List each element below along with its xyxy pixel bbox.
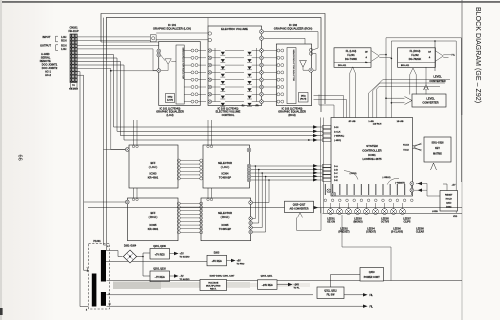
svg-text:CONVERTER: CONVERTER: [429, 79, 445, 83]
node C-POWER area: [327, 189, 331, 193]
svg-text:(S-CLASS): (S-CLASS): [391, 230, 403, 233]
FL202 heater link via LC1: [425, 68, 427, 85]
svg-text:SERIAL: SERIAL: [41, 56, 51, 60]
svg-text:Q313: Q313: [446, 203, 452, 205]
wire OUTPUT LCH: [77, 49, 157, 71]
system controller IC301 box: [331, 118, 413, 197]
VDD rail: [323, 212, 463, 214]
svg-text:+5V REG: +5V REG: [212, 260, 222, 263]
svg-text:(PRESET): (PRESET): [338, 230, 349, 233]
enclosure border inner: [106, 18, 321, 112]
A-D converter block Q315-Q317: [285, 201, 314, 212]
selector1 output nodes: [247, 164, 251, 168]
svg-text:D-A: D-A: [334, 165, 338, 168]
svg-text:Q202, Q210: Q202, Q210: [153, 269, 166, 271]
svg-text:1Ø: 1Ø: [365, 51, 368, 53]
attenuator cell R: [247, 88, 251, 91]
wire power cont to fil sw: [331, 275, 361, 288]
svg-text:KC1B: KC1B: [403, 144, 409, 146]
scan gray smear above power section: [113, 282, 250, 288]
svg-text:DG-T430K: DG-T430K: [345, 58, 357, 61]
svg-text:LEVEL: LEVEL: [426, 97, 435, 101]
svg-text:SELECTOR: SELECTOR: [218, 211, 232, 215]
scan bottom-left dark mark: [0, 308, 3, 315]
fil switch block Q311 Q312: [317, 287, 344, 299]
svg-text:( LCH ): ( LCH ): [221, 165, 230, 169]
svg-text:FL202: FL202: [411, 54, 419, 57]
IC102 box: [276, 44, 311, 106]
buffer BFF LCH IC303: [129, 145, 178, 188]
svg-text:MULTIPLYING: MULTIPLYING: [206, 285, 221, 287]
svg-text:P1301: P1301: [93, 240, 101, 243]
svg-text:11Ø RCH: 11Ø RCH: [373, 124, 382, 126]
svg-text:TO PRO: TO PRO: [237, 264, 245, 266]
wire junction at x111: [110, 70, 112, 72]
svg-text:(~SERIAL): (~SERIAL): [334, 135, 345, 138]
FL202 grid chevron: [436, 51, 444, 61]
svg-text:INPUT: INPUT: [42, 35, 50, 39]
arrow FIL 1: [363, 293, 368, 296]
svg-text:D-D: D-D: [334, 177, 338, 179]
svg-text:FIL: FIL: [370, 306, 374, 308]
svg-text:D-B: D-B: [334, 170, 338, 172]
wires from equalizer section down to BFF row1: [133, 120, 135, 145]
svg-text:IC303: IC303: [150, 172, 157, 176]
svg-text:VDD: VDD: [453, 216, 458, 218]
svg-text:SEMICONDUCTOR INDUCTOR: SEMICONDUCTOR INDUCTOR: [181, 48, 183, 80]
LED lamp: [337, 209, 343, 215]
attenuator cell R: [247, 96, 251, 99]
LED lamp: [391, 209, 397, 215]
controller key input pin boxes: [323, 164, 332, 167]
attenuator cell L: [221, 66, 225, 69]
node bus into BFF2: [125, 200, 129, 204]
controller serial pin boxes: [323, 125, 332, 128]
svg-text:S301~S326: S301~S326: [431, 143, 444, 145]
attenuator cell R: [247, 66, 251, 69]
svg-text:D203: D203: [214, 253, 220, 255]
svg-text:TC405·BP: TC405·BP: [219, 176, 232, 180]
LED lamp: [382, 209, 388, 215]
svg-text:Ø7~ØB: Ø7~ØB: [349, 121, 356, 123]
wire pin square to electric volume: [156, 32, 208, 34]
svg-text:SEMICONDUCTOR INDUCTOR: SEMICONDUCTOR INDUCTOR: [292, 50, 294, 82]
attenuator cell L: [221, 74, 225, 77]
wire selector2 fan: [252, 166, 255, 219]
svg-text:–24V: –24V: [294, 284, 300, 287]
svg-text:DCO JOINT1: DCO JOINT1: [42, 63, 58, 67]
svg-text:BFF: BFF: [150, 161, 155, 165]
attenuator cell L: [221, 52, 225, 55]
level converter 2 box: [412, 94, 446, 107]
svg-text:+5V: +5V: [237, 261, 242, 263]
svg-text:+7V: +7V: [180, 254, 185, 256]
fuse hook on primary lead: [87, 267, 88, 270]
svg-text:FL201: FL201: [347, 54, 355, 57]
selector LCH IC304: [203, 145, 250, 188]
svg-text:1Ø: 1Ø: [428, 51, 431, 53]
svg-text:DG-762GK: DG-762GK: [409, 58, 422, 61]
svg-text:TO AUDIO: TO AUDIO: [180, 278, 190, 281]
svg-text:(MONO): (MONO): [353, 221, 362, 224]
svg-text:KB-2619: KB-2619: [69, 89, 79, 91]
wire EV to IC102 top links: [264, 32, 318, 50]
svg-text:1~ØB: 1~ØB: [368, 121, 374, 123]
svg-text:(R): (R): [255, 105, 258, 107]
wire key scan lines: [251, 165, 323, 167]
LED driver pin circles: [324, 199, 327, 202]
svg-text:TC405·BP: TC405·BP: [219, 227, 232, 231]
svg-text:KR-4091: KR-4091: [148, 227, 159, 231]
svg-text:A/D CONVERTER: A/D CONVERTER: [289, 208, 308, 211]
svg-text:D-CLK: D-CLK: [334, 131, 341, 133]
AD converter up arrow: [298, 213, 303, 218]
rail power second: [107, 294, 314, 296]
controller bottom pin labels: [325, 184, 326, 195]
transformer tap wires: [106, 251, 123, 257]
svg-text:TO: TO: [72, 85, 75, 87]
FL202 drive arrow: [410, 68, 413, 95]
svg-text:(~RELD): (~RELD): [383, 177, 391, 179]
svg-text:A-GND: A-GND: [41, 52, 50, 56]
IC103 left pin circles: [208, 32, 211, 35]
svg-text:FIL SW: FIL SW: [327, 295, 336, 297]
svg-text:D304: D304: [446, 206, 452, 209]
attenuator cell R: [247, 52, 251, 55]
svg-text:(~NRC): (~NRC): [334, 140, 341, 142]
FL201 drive arrow pair: [350, 67, 353, 118]
IC103 right nodes: [259, 30, 263, 34]
svg-text:D-E: D-E: [334, 180, 338, 182]
scan left edge shading: [0, 0, 2, 320]
svg-text:RECT.: RECT.: [210, 288, 217, 290]
buffer BFF RCH IC305: [128, 198, 179, 241]
svg-text:CONTROLLER: CONTROLLER: [362, 148, 381, 152]
svg-text:Q201, Q209: Q201, Q209: [153, 246, 166, 248]
key matrix bottom arrow: [431, 163, 437, 170]
wire reset: [416, 184, 440, 197]
LC2 input chevron: [405, 97, 413, 105]
svg-text:OUTPUT: OUTPUT: [40, 44, 51, 48]
DEQ RCH sub box: [299, 93, 309, 103]
attenuator cell L: [221, 103, 225, 106]
arrow FIL 2: [363, 305, 368, 308]
IC103 electric volume box: [208, 26, 262, 106]
svg-text:CLIPS: CLIPS: [403, 221, 410, 224]
svg-text:SYSTEM: SYSTEM: [366, 144, 378, 148]
svg-text:LEVEL: LEVEL: [433, 75, 442, 79]
wires from row1 down to row2: [133, 188, 135, 198]
svg-text:( RCH ): ( RCH ): [149, 215, 158, 219]
svg-text:1Ø~ØB: 1Ø~ØB: [397, 121, 404, 123]
connector lower tail note TO KB-2619: [71, 83, 78, 88]
svg-text:BFF: BFF: [150, 211, 155, 215]
arrow -7V: [170, 275, 175, 277]
svg-text:IC304: IC304: [222, 172, 229, 176]
op-amp triangle IC101: [165, 59, 171, 64]
wire INPUT RCH to IC101: [77, 39, 150, 41]
svg-text:KC12: KC12: [403, 150, 409, 152]
LED lamp: [373, 209, 379, 215]
svg-text:Q315~Q317: Q315~Q317: [293, 205, 306, 207]
svg-text:–24V REG: –24V REG: [262, 284, 273, 287]
node bus into BFF1: [125, 148, 129, 152]
wire stub into IC101 from border: [101, 41, 159, 43]
LED lamp: [328, 209, 334, 215]
svg-text:IC301: IC301: [368, 153, 376, 157]
wire bridge to regulators: [137, 253, 150, 257]
transformer secondary winding lower: [101, 292, 106, 306]
svg-text:(LCH): (LCH): [166, 113, 173, 117]
AD converter loop wires: [297, 208, 322, 230]
FL202 display tube block: [398, 48, 436, 68]
key matrix chevron link: [414, 143, 422, 151]
wire OUTPUT RCH: [77, 46, 159, 50]
output channel bracket: [56, 45, 59, 51]
svg-text:CONTROL: CONTROL: [222, 113, 235, 117]
attenuator cell R: [247, 81, 251, 84]
rail power B+: [107, 280, 463, 282]
S-bend wire bundle right to controller: [369, 80, 450, 118]
svg-text:DEQ: DEQ: [301, 95, 306, 97]
svg-text:( LCH ): ( LCH ): [149, 165, 158, 169]
page fold line right: [461, 0, 463, 115]
wire INPUT LCH to IC101: [77, 36, 150, 38]
svg-text:66: 66: [17, 155, 23, 161]
svg-text:KR-4091: KR-4091: [148, 176, 159, 180]
transformer secondary winding upper: [101, 250, 106, 282]
scan top edge line: [0, 1, 500, 3]
selector2 output nodes: [249, 217, 253, 221]
svg-text:Q311, Q312: Q311, Q312: [324, 291, 337, 293]
wire H1 to right edge: [386, 38, 461, 182]
svg-text:CLEAR: CLEAR: [416, 230, 425, 233]
svg-text:TO FL: TO FL: [294, 288, 301, 290]
svg-text:Q310: Q310: [369, 271, 376, 274]
reset hold block Q313 D304: [440, 191, 458, 212]
svg-text:(RCH): (RCH): [288, 113, 295, 117]
svg-text:RCH: RCH: [61, 40, 67, 43]
svg-text:FL (LCH): FL (LCH): [346, 50, 357, 53]
IC101 ladder box (vertical text): [176, 45, 184, 104]
svg-text:+5V: +5V: [452, 184, 456, 186]
svg-text:–7V: –7V: [180, 276, 185, 278]
regulator -24V block: [258, 280, 278, 290]
selector RCH IC306: [201, 198, 251, 241]
node input mix IC101: [157, 49, 161, 53]
transformer primary winding: [92, 274, 97, 307]
attenuator cell L: [221, 96, 225, 99]
attenuator cell L: [221, 88, 225, 91]
svg-text:BR-L011: BR-L011: [401, 65, 410, 67]
attenuator cell R: [247, 59, 251, 62]
pin arc RCH: [344, 171, 358, 180]
wire remote drop to BFF: [77, 69, 126, 150]
svg-text:FB-111P: FB-111P: [68, 29, 78, 33]
svg-text:GRAPHIC EQUALIZER (LCH): GRAPHIC EQUALIZER (LCH): [153, 27, 191, 31]
svg-text:HOLD: HOLD: [446, 199, 453, 201]
DEQ LCH sub box: [166, 94, 175, 103]
svg-text:DEQ: DEQ: [168, 96, 173, 98]
svg-text:(L): (L): [242, 105, 245, 107]
svg-text:ELECTRIC VOLUME: ELECTRIC VOLUME: [221, 27, 248, 31]
BFF2-selector2 link wires: [177, 202, 180, 205]
wire LC1 top: [434, 41, 436, 71]
rail mid page: [88, 207, 462, 209]
attenuator cell R: [247, 103, 251, 106]
svg-text:(~RESET): (~RESET): [395, 182, 405, 184]
svg-text:(LCH): (LCH): [167, 99, 173, 101]
svg-text:CN101: CN101: [69, 26, 78, 30]
IC101 box: [159, 42, 201, 106]
wire rail drops left of controller: [320, 118, 322, 214]
wire AC-1 to transformer primary: [77, 72, 88, 307]
power cont block Q310: [360, 268, 384, 282]
svg-text:CONVERTER: CONVERTER: [422, 101, 438, 105]
wire EV top drop: [207, 18, 209, 26]
IC101 output pin circles: [191, 49, 194, 52]
arrow +5V: [227, 260, 232, 262]
arrow +7V: [170, 253, 175, 255]
key matrix block S301-S326: [424, 137, 451, 162]
svg-text:Q204, Q211: Q204, Q211: [261, 275, 274, 278]
IC101 input pin square: [150, 35, 156, 42]
svg-text:VOLTAGE: VOLTAGE: [208, 281, 219, 284]
FL201 grid chevron: [372, 51, 380, 61]
svg-text:REMOTE: REMOTE: [40, 59, 51, 63]
svg-text:LCH: LCH: [61, 48, 66, 51]
svg-text:LC6554H-4675: LC6554H-4675: [362, 157, 382, 161]
pin arc RELD: [387, 178, 399, 184]
svg-text:D205~D208, C206, C207: D205~D208, C206, C207: [210, 276, 235, 278]
svg-text:(~RCH): (~RCH): [350, 173, 357, 175]
LED lamp: [400, 209, 406, 215]
svg-text:SELECTOR: SELECTOR: [218, 161, 232, 165]
wire H2 to right edge: [391, 41, 456, 213]
svg-text:OCTVS: OCTVS: [381, 221, 390, 224]
junction on serial bus: [308, 139, 310, 141]
input channel bracket: [56, 36, 59, 42]
svg-text:+7V REG: +7V REG: [155, 253, 165, 256]
enclosure border outer: [101, 14, 325, 105]
svg-text:LODB: LODB: [432, 211, 438, 213]
svg-text:TO AUDIO: TO AUDIO: [180, 256, 190, 259]
svg-text:–7V REG: –7V REG: [155, 276, 165, 279]
wire controller to power cont: [342, 215, 391, 281]
connector CN101 body: [70, 34, 77, 83]
node selector2 top: [249, 201, 253, 205]
BFF1-selector1 link wires: [177, 159, 180, 162]
wire IC102 area to controller top: [319, 95, 334, 118]
svg-text:DCO JOINT2: DCO JOINT2: [42, 66, 58, 70]
svg-text:FIL: FIL: [370, 295, 374, 297]
svg-text:DR-L011: DR-L011: [338, 65, 347, 67]
svg-text:D-C: D-C: [334, 173, 338, 175]
svg-text:IC305: IC305: [150, 223, 157, 227]
wire BFF1 feed: [104, 149, 126, 151]
svg-text:AC-1: AC-1: [45, 70, 52, 74]
+5V tick: [443, 183, 447, 185]
arrow -24V: [277, 284, 288, 286]
wire power feed vertical A: [104, 18, 107, 245]
LED lamp: [346, 209, 352, 215]
wire AC-2 to transformer primary: [77, 75, 88, 270]
IC102 inductor ladder box: [287, 48, 296, 104]
svg-text:RESET: RESET: [445, 195, 453, 197]
op-amp triangle IC102: [300, 60, 307, 67]
svg-text:GE ON: GE ON: [327, 221, 335, 224]
svg-text:BLOCK DIAGRAM (GE – Z92): BLOCK DIAGRAM (GE – Z92): [474, 7, 481, 103]
svg-text:AC-2: AC-2: [45, 73, 52, 77]
node selector1 top: [247, 148, 251, 152]
svg-text:FL (RCH): FL (RCH): [410, 50, 421, 53]
attenuator cell L: [221, 59, 225, 62]
rail arrow: [314, 206, 319, 209]
wire into BFF2: [84, 201, 125, 203]
svg-text:IC305: IC305: [222, 223, 229, 227]
rail FIL bottom: [107, 305, 364, 307]
attenuator cell L: [221, 81, 225, 84]
svg-text:(RCH): (RCH): [300, 98, 306, 100]
attenuator cell R: [247, 74, 251, 77]
svg-text:D-DI: D-DI: [334, 127, 339, 129]
svg-text:POWER CONT: POWER CONT: [364, 277, 380, 279]
svg-text:(CREAT): (CREAT): [366, 230, 376, 233]
wire serial bus drops from connector: [77, 55, 322, 128]
svg-text:KEY: KEY: [435, 148, 440, 150]
IC102 pin circles: [277, 49, 280, 52]
FL201 display tube block: [334, 48, 371, 68]
svg-text:( RCH ): ( RCH ): [221, 215, 230, 219]
svg-text:MATRIX: MATRIX: [433, 153, 442, 156]
LED lamp: [355, 209, 361, 215]
wire power feed vertical B: [105, 60, 107, 250]
voltage multiplying rectifier block: [200, 280, 227, 291]
transformer dashed box: [89, 244, 110, 310]
LED lamp: [364, 209, 370, 215]
svg-text:GRAPHIC EQUALIZER (RCH): GRAPHIC EQUALIZER (RCH): [274, 27, 313, 31]
svg-text:D201~D204: D201~D204: [124, 245, 137, 248]
